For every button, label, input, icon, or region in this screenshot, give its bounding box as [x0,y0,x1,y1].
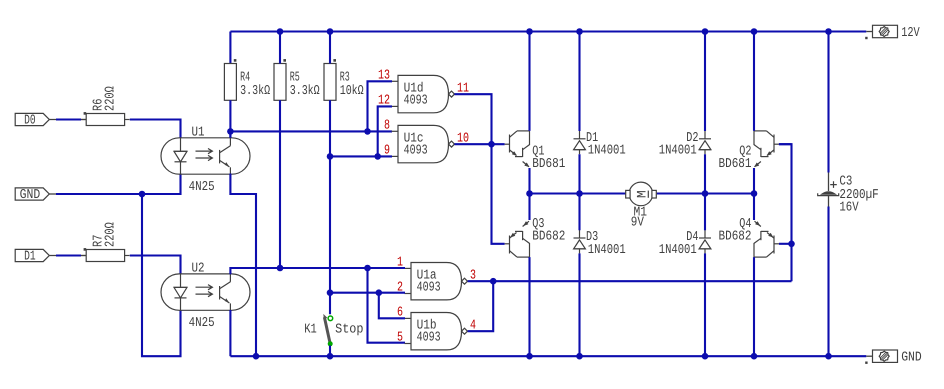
wire motor rail right [657,192,754,194]
wire R5 top [279,32,281,64]
junction node R5/+12V [277,28,284,35]
wire R3 to switch K1 [329,100,331,314]
wire D1 blue segment [56,254,81,256]
svg-text:GND: GND [901,351,922,366]
wire Q4 base stub [779,243,792,245]
wire R4 to U1 collector node [229,100,231,138]
wire +12V top rail [230,30,866,32]
junction node K1/GND [327,353,334,360]
svg-text:10kΩ: 10kΩ [340,84,364,99]
wire pin2 to R3 line [330,292,405,294]
wire Q4 collector to GND [753,257,755,356]
junction node Q2/Q4 output [751,190,758,197]
wire Q4 emitter from mid [753,194,755,221]
wire D2-D4 link [704,154,706,230]
motor M1 9V [629,182,653,206]
op-amp U1 optocoupler 4N25 [161,138,250,174]
wire D4 bottom [704,253,706,356]
junction node Q3 collector/GND [526,353,533,360]
wire U2 emitter to GND rail [229,310,231,356]
junction node Q1/Q3 output [526,190,533,197]
transistor Q1 BD681 [505,143,510,145]
wire U1 emitter jog to GND rail [230,174,256,357]
wire GND bottom rail [230,355,866,357]
wire U1a out 3 to right bridge [468,280,792,282]
junction node A branch pin5 [364,265,371,272]
wire pin1 stub [368,267,406,269]
svg-text:8: 8 [384,118,390,133]
wire D0 blue segment [56,118,81,120]
wire D1 top [578,32,580,132]
wire Q1 collector from rail [528,32,530,131]
junction enable net/R3 [327,153,334,160]
svg-text:1N4001: 1N4001 [588,144,626,159]
wire GND to U1 cathode [56,174,181,195]
junction node R3/+12V [327,28,334,35]
wire R3 top [329,32,331,64]
wire U2 collector up to net A [230,268,405,274]
wire D1-D3 link [578,154,580,230]
diode D1 1N4001 [579,130,581,138]
svg-text:BD682: BD682 [719,230,752,245]
wire U1b out 4 up [468,281,494,331]
svg-text:D1: D1 [24,249,36,264]
transistor Q2 BD681 [774,143,779,145]
svg-text:1N4001: 1N4001 [659,243,697,258]
wire C3 bottom [827,207,829,357]
svg-text:220Ω: 220Ω [104,86,119,111]
svg-text:GND: GND [20,188,41,203]
wire pin6 jog [379,293,405,319]
wire D2 top [704,32,706,132]
svg-text:4093: 4093 [417,331,441,346]
svg-text:220Ω: 220Ω [104,222,119,247]
op-amp U1a NAND 4093 [411,263,462,300]
diode D3 1N4001 [579,230,581,238]
junction node D2/D4 mid [702,190,709,197]
wire D1 to R7 [49,255,86,257]
junction node D3/GND [576,353,583,360]
svg-text:5: 5 [397,331,403,346]
connector D1 [15,249,49,261]
wire Q1 emitter to mid [528,168,530,194]
svg-text:3.3kΩ: 3.3kΩ [240,84,270,99]
wire net A branch to pin5 [368,268,406,343]
junction node GND input [139,191,146,198]
wire D3 bottom [578,253,580,356]
wire Q3 emitter from mid [528,194,530,221]
wire pin12 jog [378,106,392,156]
wire Q2 base [779,143,792,145]
op-amp U1c NAND 4093 [398,125,449,162]
resistor R4 3.3kohm [224,64,236,101]
diode D2 1N4001 [704,130,706,138]
junction enable net lower/R3 [327,289,334,296]
junction node A/R5 [277,265,284,272]
wire node B to gate U1c pin8 [230,130,392,132]
wire GND connector stub [49,193,58,195]
wire R6 to U1 anode [130,120,181,138]
wire R7 to U2 anode [130,256,181,275]
wire U1 collector up to node B [229,131,231,137]
svg-text:Stop: Stop [335,323,363,338]
svg-text:M: M [634,190,649,198]
wire pin13 jog [368,81,393,131]
svg-text:U2: U2 [192,261,205,276]
wire motor rail left [530,192,626,194]
svg-text:16V: 16V [839,201,858,216]
op-amp U2 optocoupler 4N25 [161,274,250,310]
junction pin12/pin9 [374,153,381,160]
svg-text:4093: 4093 [404,144,428,159]
connector D0 [15,113,49,125]
diode D4 1N4001 [704,230,706,238]
wire C3 top [827,32,829,173]
wire Q2 emitter to mid [753,168,755,194]
svg-text:U1: U1 [192,125,205,140]
resistor R5 3.3kohm [274,64,286,101]
wire U1c out 10 to Q1 base [455,143,505,145]
svg-text:4N25: 4N25 [189,180,215,195]
svg-text:4093: 4093 [417,281,441,296]
connector 12V terminal [866,31,872,33]
junction node Q4 collector/GND [751,353,758,360]
svg-text:BD681: BD681 [719,157,752,172]
wire R5 to net-A [279,100,281,268]
wire D0 to R6 [49,119,86,121]
svg-text:K1: K1 [304,323,317,338]
junction out3/out4 [490,278,497,285]
junction node C3/+12V [825,28,832,35]
transistor Q3 BD682 [505,243,510,245]
switch K1 Stop [324,317,330,344]
wire pin9 to R3 line [330,155,392,157]
wire K1 bottom to GND rail [329,346,331,357]
junction out11/out10 [488,141,495,148]
svg-text:D0: D0 [24,113,36,128]
connector GND [15,188,49,200]
wire GND down to U2 cathode [142,194,181,356]
op-amp U1b NAND 4093 [411,313,462,350]
junction node Q1 collector/+12V [526,28,533,35]
svg-text:4093: 4093 [404,94,428,109]
wire U1d out 11 to Q3 base [455,94,505,244]
wire R4 drop from +12V rail [229,32,231,64]
svg-text:BD681: BD681 [532,157,565,172]
wire Q2 collector from rail [753,32,755,131]
svg-text:1N4001: 1N4001 [659,144,697,159]
svg-text:12V: 12V [901,26,920,41]
junction node D4/GND [702,353,709,360]
resistor R3 10kohm [324,64,336,101]
junction node U1 emitter/GND [253,353,260,360]
op-amp U1d NAND 4093 [398,75,449,112]
svg-text:4N25: 4N25 [189,316,215,331]
svg-text:9V: 9V [631,216,644,231]
wire right bridge base riser [779,144,792,281]
resistor R7 220ohm [86,250,124,262]
svg-text:1N4001: 1N4001 [588,243,626,258]
junction pin2/pin6 [376,289,383,296]
wire Q3 collector to GND [528,257,530,356]
junction node Q2 collector/+12V [751,28,758,35]
transistor Q4 BD682 [774,243,779,245]
svg-text:3.3kΩ: 3.3kΩ [290,84,320,99]
connector GND terminal [866,355,872,357]
junction node D2/+12V [702,28,709,35]
junction node D1/D3 mid [576,190,583,197]
junction node D1/+12V [576,28,583,35]
junction node C3/GND [825,353,832,360]
junction pin13/pin8 [364,128,371,135]
junction Q4 base [788,241,795,248]
svg-text:BD682: BD682 [532,230,565,245]
resistor R6 220ohm [86,114,124,126]
capacitor C3 2200uF 16V [828,172,830,191]
junction node B (R4/U1c pin8) [227,128,234,135]
